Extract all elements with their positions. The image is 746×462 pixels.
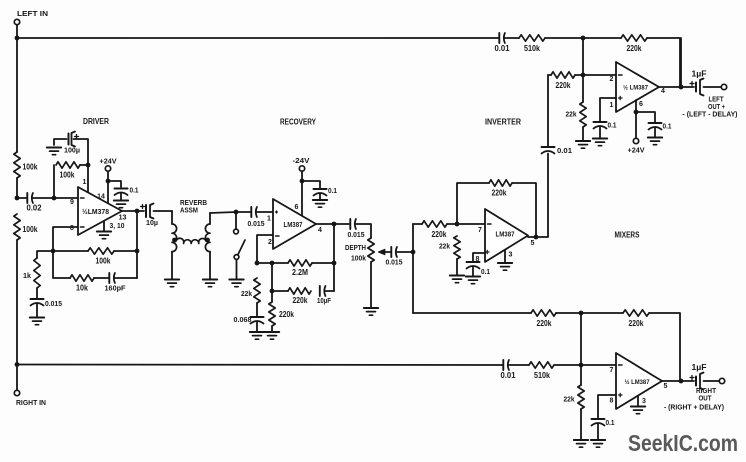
svg-text:10µ: 10µ (146, 218, 158, 227)
svg-text:3, 10: 3, 10 (110, 223, 125, 230)
capacitor 0.1 driver supply (108, 181, 139, 200)
svg-text:510k: 510k (524, 44, 541, 53)
node spring left (172, 238, 177, 243)
svg-text:2: 2 (268, 239, 272, 246)
svg-text:DEPTH: DEPTH (345, 243, 366, 252)
section label MIXERS (615, 231, 640, 240)
wire right mixer pin 8 (598, 395, 616, 419)
svg-text:4: 4 (318, 227, 322, 234)
svg-text:3: 3 (642, 398, 646, 405)
wire left mixer output (659, 86, 694, 88)
capacitor 0.01 top bus (495, 33, 511, 53)
capacitor 160pF (105, 273, 138, 293)
ground 0.1 left mixer pin1 (593, 139, 607, 146)
wire right mixer output (662, 380, 694, 382)
op-amp U3 LM387 inverter (476, 209, 535, 263)
svg-text:- (RIGHT + DELAY): - (RIGHT + DELAY) (664, 405, 724, 412)
svg-text:- (LEFT - DELAY): - (LEFT - DELAY) (683, 112, 738, 119)
ground switch (229, 280, 243, 287)
capacitor 0.1 left mixer pin1 (594, 121, 618, 139)
ground 0.1 driver (114, 201, 128, 208)
svg-text:160pF: 160pF (105, 284, 126, 293)
svg-text:0.015: 0.015 (45, 299, 63, 308)
svg-text:1: 1 (610, 102, 614, 109)
capacitor 0.068 (234, 303, 264, 332)
ground inverter pin 3 (498, 250, 512, 270)
resistor 510k right input (529, 362, 554, 380)
node top bus junction (581, 36, 586, 41)
svg-text:1µF: 1µF (692, 70, 707, 79)
wire driver input to pin 9 (54, 198, 78, 206)
capacitor 0.015 driver (31, 288, 63, 317)
node feedback row left (255, 261, 260, 266)
ground 220k shunt (265, 332, 279, 339)
resistor 22k recovery (241, 278, 260, 303)
svg-text:0.068: 0.068 (234, 315, 252, 324)
svg-text:LEFT IN: LEFT IN (17, 9, 48, 18)
capacitor 0.1 recovery supply (302, 181, 338, 200)
svg-text:½LM378: ½LM378 (82, 207, 109, 216)
capacitor 0.015 depth coupling (348, 219, 372, 239)
wire left mixer pin 6 (635, 100, 637, 138)
resistor 22k left mixer (566, 75, 587, 141)
node ac feedback tap (270, 289, 275, 294)
capacitor 1uF right out (690, 363, 719, 390)
ground 0.1 right mixer (591, 440, 605, 447)
ground input coil (165, 280, 179, 287)
svg-text:2.2M: 2.2M (292, 268, 308, 277)
ground 0.1 inverter (466, 277, 480, 284)
svg-text:6: 6 (295, 204, 299, 211)
svg-text:22k: 22k (439, 242, 451, 251)
svg-text:220k: 220k (556, 81, 572, 90)
svg-text:22k: 22k (241, 289, 253, 298)
svg-text:6: 6 (639, 101, 643, 108)
svg-text:0.1: 0.1 (606, 418, 616, 427)
svg-text:MIXERS: MIXERS (615, 231, 640, 240)
svg-text:220k: 220k (492, 189, 508, 198)
resistor 220k inverter input (413, 221, 485, 239)
svg-text:22k: 22k (566, 110, 578, 119)
svg-text:14: 14 (97, 194, 105, 201)
input terminal RIGHT IN (14, 390, 46, 407)
section label DRIVER (83, 117, 109, 126)
svg-text:510k: 510k (534, 371, 551, 380)
ground driver pins 3,10 (97, 221, 111, 239)
wire inverter pin 8 (473, 253, 485, 262)
wire inverter input riser (412, 224, 414, 313)
node spring right (205, 238, 210, 243)
supply +24V left mixer (628, 138, 646, 154)
ground right mixer pin 3 (631, 396, 645, 414)
svg-text:0.01: 0.01 (557, 146, 573, 155)
svg-text:0.015: 0.015 (248, 219, 266, 228)
svg-text:22k: 22k (564, 395, 576, 404)
svg-text:0.01: 0.01 (495, 44, 511, 53)
svg-text:1k: 1k (23, 271, 32, 280)
svg-text:220k: 220k (293, 296, 309, 305)
node left mixer output (679, 38, 684, 89)
node right mixer output (679, 379, 684, 384)
svg-text:0.1: 0.1 (130, 186, 140, 195)
svg-text:13: 13 (119, 215, 127, 222)
label REVERB ASSM (180, 198, 207, 215)
node driver output (135, 209, 140, 214)
svg-text:0.1: 0.1 (481, 267, 491, 276)
node inverter input (455, 222, 460, 227)
svg-text:100k: 100k (96, 257, 112, 266)
resistor 100k lower-left (14, 214, 38, 240)
node depth output (411, 250, 416, 255)
op-amp U4 half LM387 left mixer (610, 62, 666, 112)
node divider tap (15, 196, 20, 201)
svg-text:0.1: 0.1 (328, 186, 338, 195)
wire top bus to mixer (17, 38, 680, 87)
svg-text:220k: 220k (627, 44, 643, 53)
svg-text:2: 2 (610, 76, 614, 83)
supply +24V driver (100, 157, 118, 205)
watermark SeekIC.com (628, 430, 738, 456)
svg-text:3: 3 (509, 252, 513, 259)
section label INVERTER (485, 118, 521, 127)
ground 0.068 (250, 332, 264, 339)
op-amp U1 half LM378 driver (70, 187, 126, 235)
node driver input (52, 196, 57, 201)
svg-text:100k: 100k (351, 254, 367, 263)
svg-text:+24V: +24V (100, 157, 118, 166)
svg-text:7: 7 (610, 367, 614, 374)
node -24V junction (300, 179, 305, 184)
capacitor 0.1 inverter (467, 262, 491, 276)
resistor 100k bias feedback (54, 162, 88, 198)
node right-in junction (15, 362, 20, 367)
svg-text:10k: 10k (76, 284, 89, 293)
svg-text:7: 7 (478, 227, 482, 234)
resistor 220k ac feedback (272, 263, 311, 305)
svg-text:LM387: LM387 (496, 230, 515, 239)
svg-text:220k: 220k (629, 319, 645, 328)
svg-text:LM387: LM387 (284, 220, 303, 229)
node left-in junction (15, 36, 20, 41)
inductor reverb output coil (205, 213, 210, 279)
svg-text:1: 1 (83, 179, 87, 186)
wire driver pin 8 (53, 227, 78, 251)
svg-text:100µ: 100µ (64, 146, 80, 155)
ground 0.1 left mixer supply (648, 138, 662, 145)
ground depth pot (364, 308, 378, 315)
resistor 1k (23, 251, 53, 288)
resistor 220k left mixer input (548, 72, 616, 90)
resistor 100k driver feedback (53, 248, 137, 266)
node +24V junction (106, 179, 111, 184)
svg-text:100k: 100k (23, 225, 39, 234)
svg-text:0.01: 0.01 (501, 371, 517, 380)
resistor 22k inverter (439, 236, 460, 275)
svg-text:ASSM: ASSM (180, 206, 198, 215)
op-amp U2 LM387 recovery (267, 199, 322, 249)
svg-text:DRIVER: DRIVER (83, 117, 109, 126)
wire recovery output (316, 223, 349, 225)
wire left input bus (16, 25, 18, 391)
capacitor 0.01 right input (501, 360, 517, 380)
node feedback row mid (270, 261, 275, 266)
ground 22k inverter (450, 276, 464, 283)
ground 100u (47, 148, 61, 155)
resistor 220k shunt (269, 291, 295, 332)
wire recovery feedback riser (333, 224, 335, 291)
node pin 6 junction (634, 110, 639, 115)
wire driver output (122, 210, 144, 212)
resistor 10k driver feedback (53, 251, 109, 293)
capacitor 10uF feedback (317, 286, 334, 305)
svg-text:RECOVERY: RECOVERY (280, 118, 317, 127)
node left mixer input (581, 38, 586, 77)
node feedback row right (332, 261, 337, 266)
switch mute (234, 212, 245, 279)
svg-text:+24V: +24V (628, 146, 646, 155)
resistor 100k upper-left (14, 152, 38, 178)
resistor 220k right feedback (623, 310, 649, 328)
svg-text:5: 5 (531, 240, 535, 247)
svg-text:-24V: -24V (293, 156, 311, 165)
wire left mixer pin 1 (600, 98, 616, 122)
capacitor 100u bias (54, 132, 88, 194)
svg-text:0.015: 0.015 (386, 258, 404, 267)
svg-text:1µF: 1µF (692, 363, 707, 372)
svg-text:1: 1 (267, 216, 271, 223)
inductor reverb input coil (172, 211, 177, 279)
inductor reverb spring (176, 238, 206, 243)
capacitor 0.01 inverter out (542, 75, 573, 155)
output terminal RIGHT OUT (664, 378, 725, 411)
node right mixer input (579, 363, 584, 368)
wire recovery pin 2 (257, 235, 273, 263)
ground output coil (203, 280, 217, 287)
node switch tap (234, 210, 239, 215)
svg-text:100k: 100k (60, 171, 76, 180)
svg-text:RIGHT IN: RIGHT IN (16, 398, 46, 407)
wire reverb out to recovery (210, 212, 251, 213)
resistor 220k inverter feedback (457, 180, 536, 237)
svg-text:5: 5 (664, 383, 668, 390)
node bias riser (83, 163, 91, 186)
svg-text:220k: 220k (537, 319, 553, 328)
svg-text:9: 9 (70, 199, 74, 206)
svg-text:0.015: 0.015 (348, 230, 366, 239)
capacitor 0.1 right mixer (592, 418, 616, 440)
wire bottom bus (17, 364, 616, 367)
svg-text:8: 8 (70, 225, 74, 232)
resistor 2.2M feedback (257, 260, 334, 277)
supply -24V (293, 156, 311, 216)
resistor 220k left-mixer feedback (621, 35, 647, 53)
svg-text:8: 8 (610, 398, 614, 405)
ground 0.1 recovery (313, 200, 327, 207)
node recovery output (332, 222, 337, 227)
node driver feedback tap (51, 249, 56, 254)
svg-text:½ LM387: ½ LM387 (625, 378, 650, 386)
capacitor 0.02 input (17, 193, 54, 213)
svg-text:220k: 220k (432, 230, 448, 239)
node feedback riser (135, 211, 140, 278)
section label RECOVERY (280, 118, 317, 127)
capacitor 0.1 left mixer supply (636, 112, 672, 137)
svg-text:100k: 100k (23, 163, 39, 172)
svg-text:0.1: 0.1 (663, 122, 673, 131)
ground 22k left mixer (576, 141, 590, 148)
ground 1k chain (30, 318, 44, 325)
svg-text:0.1: 0.1 (608, 121, 618, 130)
svg-text:INVERTER: INVERTER (485, 118, 521, 127)
output terminal LEFT OUT (683, 84, 738, 118)
resistor 220k delay mix (531, 310, 556, 328)
svg-text:SeekIC.com: SeekIC.com (628, 430, 738, 456)
wire mixer bottom bus (413, 313, 680, 381)
capacitor 0.015 wiper out (386, 247, 414, 267)
capacitor 0.015 recovery input (248, 207, 274, 228)
svg-text:OUT: OUT (699, 394, 713, 403)
svg-text:4: 4 (661, 88, 665, 95)
ground 22k right mixer (574, 440, 588, 447)
svg-text:OUT +: OUT + (708, 102, 725, 111)
node bottom bus junction (579, 311, 584, 365)
svg-text:0.02: 0.02 (27, 204, 43, 213)
resistor 22k right mixer (564, 365, 585, 440)
resistor 510k top bus (519, 35, 545, 53)
svg-text:½ LM387: ½ LM387 (623, 84, 648, 92)
node inverter output (534, 235, 539, 240)
input terminal LEFT IN (14, 9, 48, 25)
capacitor 10u coupling (141, 204, 173, 228)
potentiometer DEPTH 100k (345, 238, 391, 307)
capacitor 1uF left out (690, 70, 721, 96)
svg-text:10µF: 10µF (317, 296, 331, 305)
wire inverter output (528, 154, 548, 238)
svg-text:220k: 220k (279, 310, 295, 319)
op-amp U5 half LM387 right mixer (610, 353, 668, 409)
